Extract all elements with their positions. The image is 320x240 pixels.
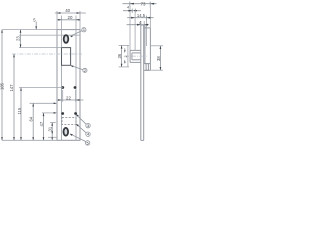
svg-text:1: 1 xyxy=(83,28,85,32)
svg-text:5: 5 xyxy=(87,141,89,145)
svg-text:40: 40 xyxy=(65,8,70,13)
svg-text:4: 4 xyxy=(127,5,129,9)
svg-text:4: 4 xyxy=(87,133,89,137)
svg-text:185: 185 xyxy=(0,82,5,90)
svg-text:14,5: 14,5 xyxy=(137,13,146,18)
svg-text:147: 147 xyxy=(9,84,14,92)
svg-text:115: 115 xyxy=(17,107,22,114)
svg-text:20: 20 xyxy=(68,15,73,20)
svg-text:3: 3 xyxy=(87,124,89,128)
svg-text:38: 38 xyxy=(156,56,161,61)
svg-text:31: 31 xyxy=(48,126,53,131)
svg-text:36: 36 xyxy=(117,53,122,58)
svg-text:2: 2 xyxy=(124,56,128,58)
svg-text:23: 23 xyxy=(15,36,20,41)
svg-text:22: 22 xyxy=(66,95,71,100)
svg-text:64: 64 xyxy=(29,116,34,121)
svg-text:2: 2 xyxy=(84,69,86,73)
svg-text:47: 47 xyxy=(39,121,44,126)
svg-text:73: 73 xyxy=(141,1,146,6)
